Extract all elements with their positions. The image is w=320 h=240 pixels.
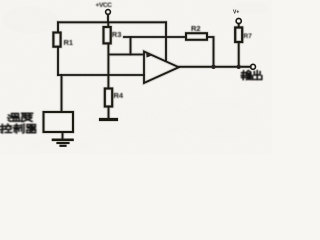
wire: R4 bottom stub: [108, 107, 110, 119]
wire: box bottom to ground: [62, 132, 64, 139]
wire: op-amp output: [179, 66, 251, 68]
paper background: [0, 0, 272, 154]
wire: R7 bottom to output node: [238, 42, 240, 67]
paper noise texture: [0, 0, 1, 1]
制: [14, 124, 21, 133]
wire: feedback riser from inverting input: [130, 37, 132, 55]
ground (below R4, single bar): [101, 118, 117, 121]
op-amp U1 triangle: [144, 52, 179, 84]
resistor R1 body: [53, 33, 60, 47]
输: [241, 71, 245, 80]
wire: R7 column, V+ terminal to resistor: [238, 24, 240, 28]
label 控制器 (hand-drawn glyphs, line 2 of box label): [0, 124, 35, 133]
resistor R3 body: [104, 27, 111, 43]
junction node: feedback drop on output wire: [211, 65, 215, 69]
resistor R4 body: [105, 89, 112, 107]
wire halo layer (scan blur): [107, 15, 110, 23]
label 温度 (hand-drawn glyphs, line 1 of box label): [8, 113, 32, 121]
wire: R1 top stub: [57, 22, 59, 32]
wire: drop from non-inverting wire to controller box: [61, 75, 63, 112]
wire: feedback horizontal to R2: [124, 36, 186, 38]
wire: non-inverting input (to op-amp bottom input): [58, 74, 144, 76]
junction node: R7 on output wire: [237, 65, 241, 69]
wire: top supply bus: [58, 21, 166, 23]
ink mark inside op-amp at inverting input: [146, 53, 152, 58]
度: [22, 113, 33, 121]
controller box: [44, 112, 74, 132]
resistor R2 body: [186, 33, 207, 40]
wire: VCC drop to op-amp V+: [165, 22, 167, 60]
resistor R7 body: [235, 28, 242, 43]
terminal circle +VCC: [106, 10, 111, 15]
控: [0, 124, 5, 133]
器: [27, 124, 35, 126]
ground (below box): [53, 139, 73, 142]
label 输出 (hand-drawn glyphs at output terminal): [241, 71, 261, 80]
terminal circle output: [251, 64, 256, 69]
wire: +VCC terminal to bus: [107, 15, 109, 23]
出: [254, 71, 260, 80]
wire: R3 top stub: [107, 22, 109, 27]
wire: inverting input (to op-amp top input): [109, 54, 145, 56]
wire: R2 right to output drop: [207, 37, 214, 67]
wire: R1 bottom to box, left column: [57, 47, 59, 75]
wire: R3 bottom down to R4 (middle column): [107, 43, 109, 88]
温: [8, 115, 10, 121]
terminal circle V+ (R7 top): [236, 18, 241, 23]
